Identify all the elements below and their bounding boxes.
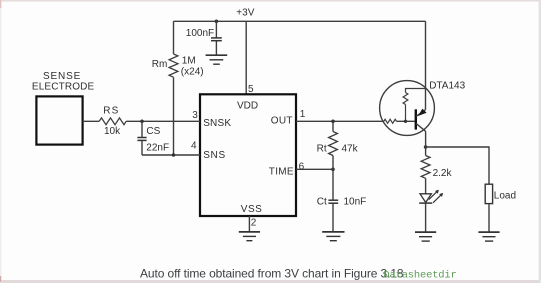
label Rm: [152, 59, 168, 70]
pin number 6: [299, 161, 305, 172]
label RS: [103, 105, 119, 116]
transistor base bar: [415, 109, 417, 129]
svg-text:SNS: SNS: [203, 150, 226, 161]
svg-text:10k: 10k: [104, 126, 121, 137]
label SNSK: [203, 118, 231, 129]
svg-text:DTA143: DTA143: [429, 81, 465, 92]
wire: +3V top rail: [174, 20, 426, 22]
label Ct: [317, 196, 327, 207]
wire: 100nF branch vertical: [215, 21, 217, 55]
svg-text:Rt: Rt: [317, 143, 327, 154]
svg-text:2: 2: [251, 218, 257, 229]
svg-text:(x24): (x24): [181, 67, 204, 78]
svg-text:Load: Load: [494, 190, 516, 201]
label Load: [494, 190, 516, 201]
pin number 4: [191, 141, 197, 152]
label DTA143: [429, 81, 465, 92]
junction dot base node: [404, 120, 407, 123]
junction dot at Rt tap: [331, 120, 335, 124]
svg-text:VSS: VSS: [241, 204, 263, 215]
svg-text:22nF: 22nF: [146, 142, 169, 153]
label 47k: [342, 143, 359, 154]
svg-text:SENSE: SENSE: [43, 71, 81, 82]
junction dot collector node: [424, 145, 428, 149]
resistor Rt: [329, 132, 338, 156]
junction dot on rail at 100nF tap: [215, 20, 219, 24]
wire: 2.2k branch top: [425, 147, 427, 156]
svg-text:4: 4: [191, 141, 197, 152]
svg-text:Rm: Rm: [152, 59, 168, 70]
svg-text:ELECTRODE: ELECTRODE: [32, 82, 95, 93]
svg-text:1: 1: [300, 109, 306, 120]
transistor Q1 DTA143 circle: [380, 81, 435, 136]
svg-text:VDD: VDD: [237, 101, 258, 112]
capacitor Ct: [328, 200, 338, 231]
ground below 100nF: [206, 55, 228, 64]
wire: Rm branch vertical (rail to SNS line): [173, 21, 175, 155]
svg-text:47k: 47k: [342, 143, 359, 154]
svg-text:2.2k: 2.2k: [433, 168, 453, 179]
wire: VSS pin 2: [248, 216, 250, 232]
resistor 2.2k: [421, 156, 430, 179]
wire: SNS line to pin 4: [142, 154, 200, 156]
wire: OUT pin 1 to transistor base: [296, 120, 384, 122]
caption text: [140, 266, 404, 280]
wire: base lead: [397, 120, 415, 122]
wire: resistor to LED: [425, 178, 427, 193]
label Rt: [317, 143, 327, 154]
ground below VSS: [239, 232, 260, 241]
label 10nF: [344, 196, 367, 207]
svg-text:CS: CS: [146, 126, 160, 137]
transistor collector: [416, 123, 426, 131]
resistor RS: [99, 118, 126, 125]
wire: TIME pin 6 to Rt bottom: [296, 168, 333, 170]
wire: collector node to Load branch: [426, 147, 489, 184]
svg-text:SNSK: SNSK: [203, 118, 231, 129]
LED D1: [419, 190, 443, 203]
label VDD: [237, 101, 258, 112]
svg-text:Datasheetdir: Datasheetdir: [383, 270, 456, 282]
IC U1 body: [200, 94, 296, 216]
svg-text:1M: 1M: [182, 55, 196, 66]
label 100nF: [186, 28, 214, 39]
resistor R2 (base-emitter, internal): [403, 89, 425, 122]
wire: electrode to RS: [83, 120, 100, 122]
pin number 5: [248, 84, 254, 95]
wire: RS to SNSK pin 3: [126, 120, 200, 122]
Load box: [485, 184, 492, 203]
label VSS: [241, 204, 263, 215]
svg-text:Ct: Ct: [317, 196, 327, 207]
label OUT: [271, 116, 293, 127]
label 10k: [104, 126, 121, 137]
label 22nF: [146, 142, 169, 153]
pin number 1: [300, 109, 306, 120]
svg-text:RS: RS: [103, 105, 119, 116]
svg-text:+3V: +3V: [236, 8, 254, 19]
SENSE ELECTRODE label: [32, 71, 95, 93]
label SNS: [203, 150, 226, 161]
ground below LED: [415, 232, 436, 241]
svg-text:OUT: OUT: [271, 116, 293, 127]
ground below Load: [478, 232, 499, 241]
resistor R1 (base series, internal): [384, 119, 397, 123]
wire: collector down to node: [425, 131, 427, 147]
watermark Datasheetdir: [383, 270, 456, 282]
label CS: [146, 126, 160, 137]
ground below Ct: [322, 232, 344, 241]
capacitor 100nF: [211, 38, 222, 41]
wire: VDD branch vertical: [245, 21, 247, 94]
SENSE ELECTRODE pad: [36, 96, 82, 144]
resistor Rm: [169, 54, 178, 77]
svg-text:Auto off time obtained from 3V: Auto off time obtained from 3V chart in …: [140, 266, 404, 280]
label 2.2k: [433, 168, 453, 179]
node +3V label: [236, 8, 254, 19]
label 1M: [182, 55, 196, 66]
pin number 2: [251, 218, 257, 229]
svg-text:10nF: 10nF: [344, 196, 367, 207]
junction node at CS tap: [140, 120, 144, 124]
junction dot at TIME node: [331, 168, 335, 172]
pin number 3: [192, 110, 198, 121]
capacitor CS: [137, 121, 146, 155]
wire: Rt bottom to Ct: [332, 156, 334, 200]
label (x24): [181, 67, 204, 78]
svg-text:6: 6: [299, 161, 305, 172]
wire: Rt branch top: [332, 121, 334, 131]
junction dot Rm/SNS: [172, 153, 176, 157]
wire: emitter to +3V rail: [425, 21, 427, 110]
transistor emitter with arrow: [416, 109, 427, 117]
label TIME: [269, 167, 294, 178]
wire: Load to ground: [488, 204, 490, 232]
wire: LED to ground: [425, 203, 427, 232]
svg-text:100nF: 100nF: [186, 28, 214, 39]
svg-text:3: 3: [192, 110, 198, 121]
svg-text:TIME: TIME: [269, 167, 294, 178]
